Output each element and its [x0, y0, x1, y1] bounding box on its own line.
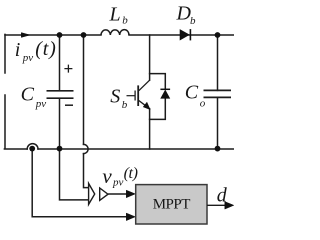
svg-text:v: v	[102, 164, 112, 188]
diode Db	[180, 29, 190, 40]
arrow ipv into MPPT	[126, 213, 135, 221]
svg-text:b: b	[122, 15, 128, 27]
node B dot bottom rail	[57, 146, 63, 152]
wire top rail	[5, 34, 234, 36]
label Co	[185, 82, 206, 110]
wire bottom rail	[38, 148, 234, 150]
wire diode branch top	[150, 74, 166, 90]
wire feedback ipv to MPPT	[32, 149, 127, 217]
svg-text:L: L	[109, 4, 121, 26]
label plus Cpv	[64, 65, 72, 73]
node dot top Cpv	[57, 32, 63, 38]
label Sb	[110, 86, 128, 111]
node dot top Co	[215, 32, 221, 38]
voltage probe triangle small	[100, 188, 108, 200]
MPPT block	[136, 185, 207, 224]
svg-text:o: o	[200, 98, 206, 110]
wire hop over node A	[27, 144, 38, 149]
wire emitter to rail	[149, 109, 151, 149]
wire Co branch	[217, 35, 219, 149]
label ipv(t)	[15, 38, 57, 64]
arrow ipv on top wire	[21, 33, 30, 38]
wire vpv sense vertical	[84, 35, 89, 188]
svg-text:MPPT: MPPT	[153, 196, 191, 212]
inductor Lb	[101, 30, 129, 35]
svg-text:S: S	[110, 86, 120, 108]
arrow d output	[225, 202, 234, 210]
transistor Sb IGBT	[127, 80, 151, 109]
node dot top sense	[81, 32, 87, 38]
svg-text:i: i	[15, 39, 21, 61]
svg-text:pv: pv	[22, 52, 34, 64]
wire collector branch	[149, 35, 151, 80]
wire diode branch bottom	[150, 98, 166, 119]
svg-text:C: C	[21, 84, 35, 106]
svg-text:pv: pv	[112, 176, 124, 188]
svg-text:b: b	[122, 99, 128, 111]
label Db	[176, 3, 197, 27]
capacitor Co	[204, 90, 232, 97]
label minus Cpv	[65, 104, 73, 106]
svg-text:C: C	[185, 82, 199, 104]
node A dot bottom rail	[29, 146, 35, 152]
label vpv(t)	[102, 164, 137, 188]
wire left vertical upper	[4, 34, 6, 73]
label Cpv	[21, 84, 47, 111]
wire d output	[207, 204, 227, 206]
svg-text:(t): (t)	[35, 38, 56, 60]
capacitor Cpv	[47, 91, 74, 98]
diode antiparallel of Sb	[160, 89, 170, 98]
svg-text:pv: pv	[35, 98, 47, 110]
wire lower probe input from node B	[60, 149, 89, 200]
wire hop of sense over bottom rail	[84, 144, 89, 153]
voltage probe triangle large	[89, 183, 95, 204]
arrow vpv into MPPT	[126, 190, 135, 198]
wire probe output to MPPT	[108, 193, 128, 195]
svg-text:(t): (t)	[124, 165, 138, 182]
node dot bottom Co	[215, 146, 221, 152]
svg-text:d: d	[217, 184, 228, 206]
label Lb	[109, 4, 129, 27]
wire left vertical lower	[4, 95, 27, 149]
svg-text:b: b	[190, 15, 196, 27]
wire Cpv branch	[59, 35, 61, 149]
